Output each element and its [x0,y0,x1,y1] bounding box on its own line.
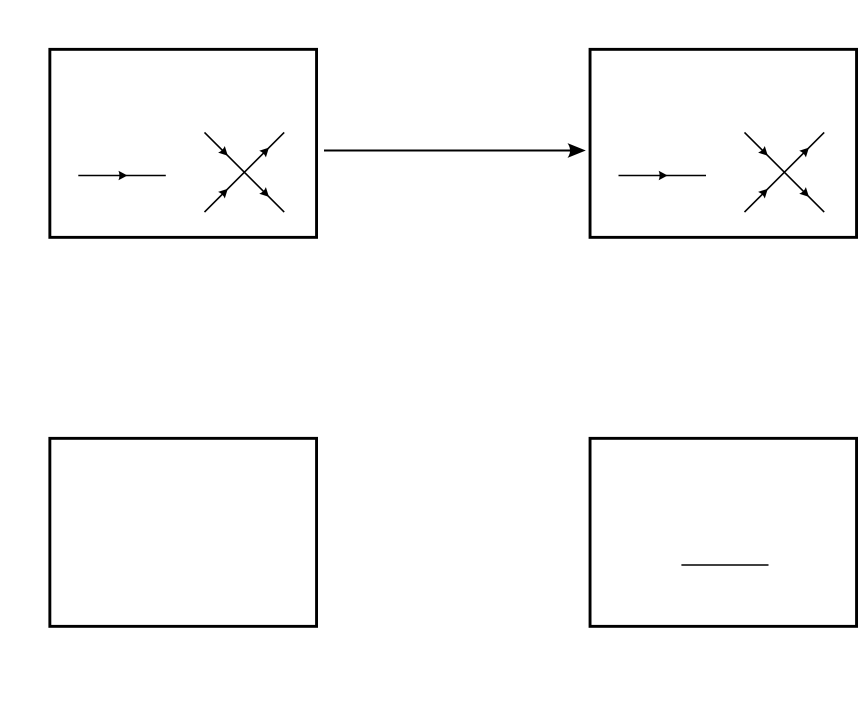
arrowhead lower-left segment (top-right box) [758,189,768,199]
box: initial-state frame (top-left) [50,49,317,237]
arrowhead upper-right segment (top-right box) [799,148,809,158]
box: frame with segment (bottom-right) [590,438,857,626]
wire: straight particle line in top-left box [78,175,166,177]
box: empty frame (bottom-left) [50,438,317,626]
wire: crossing line TL-BR (top-right box) [745,132,825,212]
wire: crossing line BL-TR (top-left box) [205,132,285,212]
arrowhead on straight particle line (top-left box) [118,171,127,180]
arrowhead lower-right segment (top-right box) [799,187,809,197]
wire: crossing line BL-TR (top-right box) [745,132,825,212]
wire: crossing line TL-BR (top-left box) [205,132,285,212]
arrowhead lower-left segment (top-left box) [218,189,228,199]
arrowhead upper-left segment (top-left box) [218,146,228,156]
arrowhead upper-left segment (top-right box) [758,146,768,156]
arrowhead on straight particle line (top-right box) [659,171,668,180]
arrowhead: connecting arrow head (points to top-right box) [568,143,586,158]
wire: connecting arrow shaft (top-left box to top-right box) [324,150,571,152]
arrowhead upper-right segment (top-left box) [259,148,269,158]
wire: straight particle line in top-right box [619,175,707,177]
arrowhead lower-right segment (top-left box) [259,187,269,197]
box: final-state frame (top-right) [590,49,857,237]
wire: short horizontal segment in bottom-right box [681,564,768,566]
